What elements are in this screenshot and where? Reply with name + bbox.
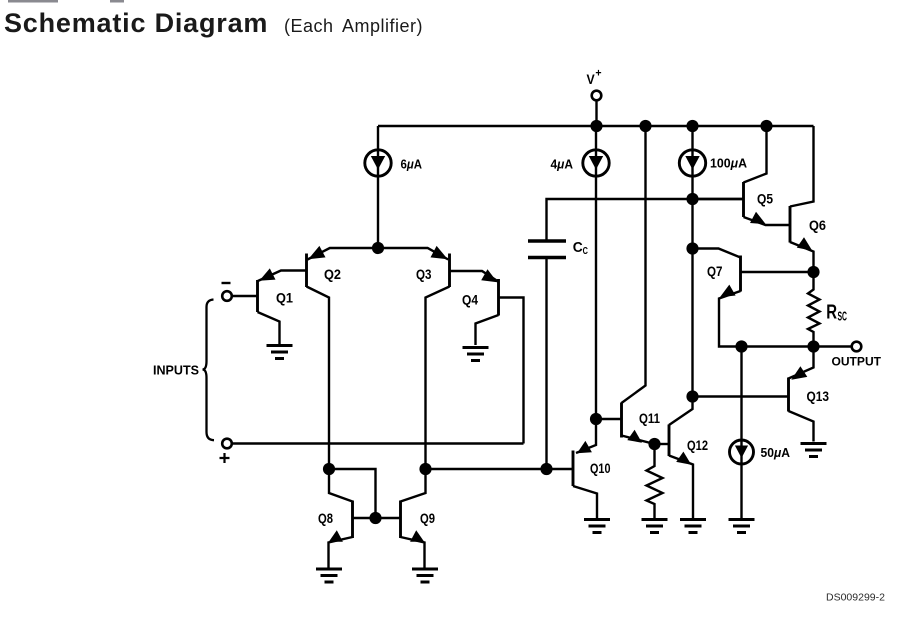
svg-text:6μA: 6μA	[401, 157, 423, 172]
svg-text:SC: SC	[838, 308, 848, 323]
svg-text:Q1: Q1	[276, 291, 293, 306]
svg-text:100μA: 100μA	[710, 156, 748, 171]
svg-text:Q10: Q10	[590, 461, 611, 476]
svg-text:Q4: Q4	[462, 293, 478, 308]
svg-text:Q13: Q13	[807, 389, 830, 404]
svg-text:Q9: Q9	[420, 511, 435, 526]
svg-text:C: C	[583, 246, 588, 257]
svg-text:Q8: Q8	[318, 511, 333, 526]
svg-text:Q12: Q12	[687, 438, 708, 453]
svg-text:INPUTS: INPUTS	[153, 363, 199, 378]
svg-text:Q11: Q11	[639, 411, 660, 426]
svg-text:DS009299-2: DS009299-2	[826, 592, 885, 604]
svg-text:Q3: Q3	[416, 267, 432, 282]
svg-text:Q7: Q7	[707, 264, 723, 279]
svg-text:R: R	[826, 302, 837, 324]
svg-text:Q6: Q6	[809, 218, 826, 233]
svg-text:50μA: 50μA	[761, 445, 791, 460]
svg-text:Q5: Q5	[757, 192, 773, 207]
svg-text:4μA: 4μA	[551, 157, 574, 172]
svg-text:OUTPUT: OUTPUT	[832, 357, 882, 369]
svg-text:+: +	[595, 67, 601, 79]
svg-text:Q2: Q2	[324, 267, 341, 282]
svg-text:V: V	[587, 71, 596, 87]
